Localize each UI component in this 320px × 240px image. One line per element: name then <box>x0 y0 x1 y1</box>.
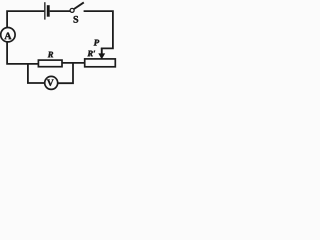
label P <box>94 40 100 46</box>
ammeter A circle <box>1 28 15 42</box>
rheostat slider arrowhead <box>98 53 105 59</box>
wire voltmeter left branch: junction on middle wire down and right <box>28 64 45 83</box>
rheostat slider arrow stem <box>101 48 103 53</box>
label R <box>48 52 53 58</box>
resistor R box <box>38 60 62 67</box>
battery: short thick plate <box>47 5 50 17</box>
battery: long thin plate <box>44 2 45 19</box>
voltmeter V circle <box>45 76 58 89</box>
wire top-left corner: battery to left side down to ammeter <box>7 11 44 28</box>
wire left lower + middle-left to resistor R <box>7 42 38 64</box>
wire voltmeter right branch: to junction right of R <box>58 63 73 83</box>
rheostat R' box <box>85 59 116 67</box>
wire switch right contact to top-right corner and down to jog <box>84 11 113 48</box>
wire resistor R to rheostat <box>62 62 85 64</box>
switch S pivot circle <box>70 8 74 12</box>
voltmeter V letter <box>47 80 54 86</box>
switch S blade <box>74 2 84 9</box>
ammeter A letter <box>4 33 11 40</box>
label S <box>74 16 79 23</box>
wire battery to switch <box>50 10 70 12</box>
label R' <box>87 51 95 57</box>
